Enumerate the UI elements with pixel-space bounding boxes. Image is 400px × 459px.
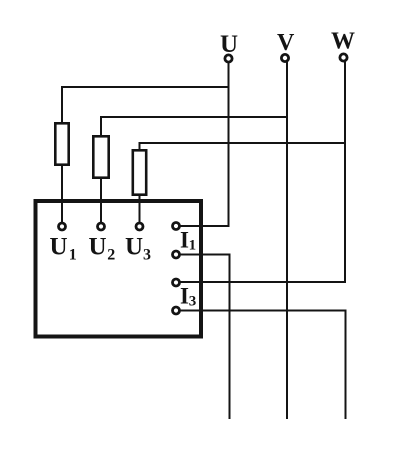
svg-text:I: I	[180, 284, 189, 309]
svg-text:U: U	[125, 234, 143, 261]
svg-text:V: V	[277, 30, 295, 56]
svg-text:U: U	[220, 31, 238, 58]
svg-text:1: 1	[189, 238, 197, 254]
svg-text:W: W	[331, 29, 355, 55]
svg-text:U: U	[89, 234, 107, 261]
svg-text:2: 2	[107, 247, 115, 264]
svg-text:U: U	[50, 234, 68, 261]
svg-text:3: 3	[143, 247, 151, 264]
svg-text:3: 3	[189, 294, 197, 310]
svg-text:1: 1	[69, 247, 77, 264]
